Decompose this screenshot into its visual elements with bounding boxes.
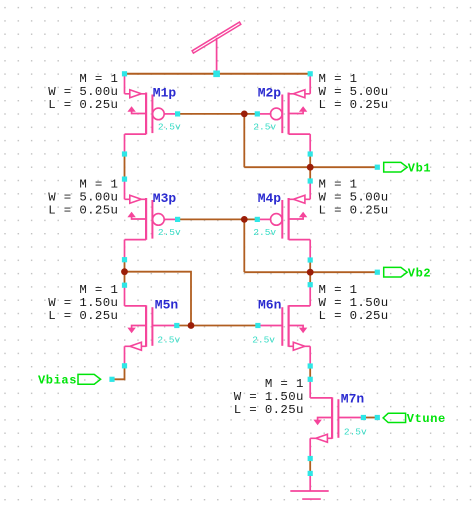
wire net Vb1 horizontal to port: [244, 166, 377, 168]
param text M4p: [319, 177, 389, 217]
svg-text:W = 1.50u: W = 1.50u: [234, 390, 304, 404]
param text M7n: [234, 377, 304, 417]
transistor M4p (PMOS, mirrored): [257, 179, 310, 259]
svg-text:2.5v: 2.5v: [158, 122, 181, 133]
label M5n: [155, 298, 179, 313]
svg-text:2.5v: 2.5v: [158, 227, 181, 238]
value label 2.5v of M6n: [252, 334, 275, 345]
pin M3p drain: [122, 257, 127, 262]
port label Vb1: [408, 161, 431, 175]
svg-text:Vbias: Vbias: [38, 373, 77, 387]
svg-text:2.5v: 2.5v: [253, 227, 276, 238]
pin M5n gate: [174, 323, 179, 328]
junction node Vb2 at gate row 2: [241, 216, 248, 223]
wire VDD rail: [125, 73, 311, 75]
svg-text:M7n: M7n: [341, 391, 365, 406]
svg-text:L = 0.25u: L = 0.25u: [319, 204, 389, 218]
svg-text:2.5v: 2.5v: [157, 335, 180, 346]
svg-text:Vtune: Vtune: [407, 412, 446, 426]
param text M3p: [48, 177, 118, 217]
pin M7n source: [308, 456, 313, 461]
svg-text:M = 1: M = 1: [265, 377, 304, 391]
param text M6n: [319, 283, 389, 323]
svg-text:W = 1.50u: W = 1.50u: [48, 296, 118, 310]
svg-text:M = 1: M = 1: [79, 177, 118, 191]
svg-text:2.5v: 2.5v: [344, 427, 367, 438]
transistor M3p (PMOS): [125, 179, 178, 259]
value label 2.5v of M7n: [344, 427, 367, 438]
pin M3p gate: [175, 217, 180, 222]
pin vdd symbol on rail: [213, 71, 220, 78]
pin gnd: [308, 471, 313, 476]
svg-text:M = 1: M = 1: [319, 283, 358, 297]
svg-text:M2p: M2p: [258, 85, 282, 100]
svg-text:M1p: M1p: [153, 85, 177, 100]
pin M5n drain: [122, 283, 127, 288]
pin M2p gate: [255, 111, 260, 116]
power supply vdd symbol: [192, 22, 241, 74]
svg-text:L = 0.25u: L = 0.25u: [234, 403, 304, 417]
wire M5n gate to M6n gate: [177, 325, 258, 327]
svg-text:W = 5.00u: W = 5.00u: [319, 190, 389, 204]
svg-text:M6n: M6n: [258, 298, 282, 313]
transistor M6n (NMOS, gate left): [258, 285, 310, 366]
svg-text:W = 1.50u: W = 1.50u: [319, 296, 389, 310]
pin M4p gate: [255, 217, 260, 222]
pin M7n drain: [308, 377, 313, 382]
pin M6n source: [308, 363, 313, 368]
svg-text:M5n: M5n: [155, 298, 179, 313]
transistor M7n (NMOS, gate right): [310, 377, 363, 458]
value label 2.5v of M3p: [158, 227, 181, 238]
port label Vtune: [407, 412, 446, 426]
wire net Vb2 vertical drop: [243, 219, 245, 272]
wire M1p gate to M2p gate (net Vb1): [178, 113, 258, 115]
pin M6n drain: [308, 282, 313, 287]
wire M6n source to M7n drain: [309, 366, 311, 379]
label M7n: [341, 391, 365, 406]
svg-text:2.5v: 2.5v: [253, 122, 276, 133]
label M3p: [153, 191, 177, 206]
value label 2.5v of M5n: [157, 335, 180, 346]
wire M7n gate to Vtune port: [363, 417, 377, 419]
svg-text:L = 0.25u: L = 0.25u: [319, 309, 389, 323]
pin M4p drain: [308, 257, 313, 262]
label M6n: [258, 298, 282, 313]
pin M2p source at VDD rail: [308, 71, 313, 76]
pin M1p gate: [175, 111, 180, 116]
wire net Vb1 vertical drop: [243, 114, 245, 167]
junction M3p drain node: [121, 268, 128, 275]
transistor M5n (NMOS, gate right): [125, 285, 177, 366]
svg-text:M3p: M3p: [153, 191, 177, 206]
label M2p: [258, 85, 282, 100]
pin port Vb1: [375, 165, 380, 170]
junction node Vb1 at right column: [307, 164, 314, 171]
pin M6n gate: [255, 323, 260, 328]
transistor M1p (PMOS): [125, 74, 178, 154]
value label 2.5v of M2p: [253, 122, 276, 133]
svg-text:L = 0.25u: L = 0.25u: [48, 204, 118, 218]
value label 2.5v of M1p: [158, 122, 181, 133]
param text M2p: [319, 72, 389, 112]
pin M7n gate: [361, 415, 366, 420]
svg-text:2.5v: 2.5v: [252, 334, 275, 345]
pin port Vtune: [375, 415, 380, 420]
port Vtune (input pin symbol): [383, 413, 406, 422]
svg-text:M = 1: M = 1: [319, 177, 358, 191]
pin M4p source: [308, 178, 313, 183]
pin M2p drain: [308, 151, 313, 156]
svg-text:W = 5.00u: W = 5.00u: [48, 190, 118, 204]
pin M5n source: [122, 363, 127, 368]
param text M1p: [48, 72, 118, 112]
wire M4p drain to M6n drain: [309, 260, 311, 285]
port Vbias (input pin symbol): [78, 374, 101, 384]
junction M5n/M6n gate node: [188, 322, 195, 329]
wire Vbias port to M5n source: [112, 366, 125, 380]
svg-text:M = 1: M = 1: [319, 72, 358, 86]
port label Vbias: [38, 373, 77, 387]
pin port Vb2: [375, 270, 380, 275]
svg-text:M4p: M4p: [258, 191, 282, 206]
value label 2.5v of M4p: [253, 227, 276, 238]
svg-text:L = 0.25u: L = 0.25u: [319, 98, 389, 112]
svg-text:W = 5.00u: W = 5.00u: [48, 85, 118, 99]
port Vb2 (output pin symbol): [384, 267, 408, 277]
label M1p: [153, 85, 177, 100]
junction node Vb1 at gate row 1: [241, 111, 248, 118]
port Vb1 (output pin symbol): [384, 162, 408, 172]
wire net Vb2 horizontal to port: [244, 271, 377, 273]
pin M1p drain: [122, 151, 127, 156]
param text M5n: [48, 283, 118, 323]
label M4p: [258, 191, 282, 206]
svg-text:Vb2: Vb2: [408, 266, 431, 280]
pin port Vbias: [109, 377, 114, 382]
svg-text:M = 1: M = 1: [79, 72, 118, 86]
wire M3p drain to M5n/M6n gates: [125, 272, 192, 326]
svg-text:Vb1: Vb1: [408, 161, 431, 175]
wire M2p drain to M4p source: [309, 154, 311, 181]
pin M3p source: [122, 177, 127, 182]
wire M7n source to ground: [309, 459, 311, 474]
svg-text:L = 0.25u: L = 0.25u: [48, 309, 118, 323]
wire M3p gate to M4p gate (net Vb2): [178, 218, 258, 220]
wire M3p drain to M5n drain: [124, 260, 126, 286]
ground symbol: [290, 473, 328, 499]
transistor M2p (PMOS, mirrored): [257, 74, 310, 154]
port label Vb2: [408, 266, 431, 280]
junction node Vb2 at right column: [307, 269, 314, 276]
svg-text:L = 0.25u: L = 0.25u: [48, 98, 118, 112]
svg-text:M = 1: M = 1: [79, 283, 118, 297]
pin M1p source at VDD rail: [122, 71, 127, 76]
svg-text:W = 5.00u: W = 5.00u: [319, 85, 389, 99]
wire M1p drain to M3p source: [124, 154, 126, 179]
